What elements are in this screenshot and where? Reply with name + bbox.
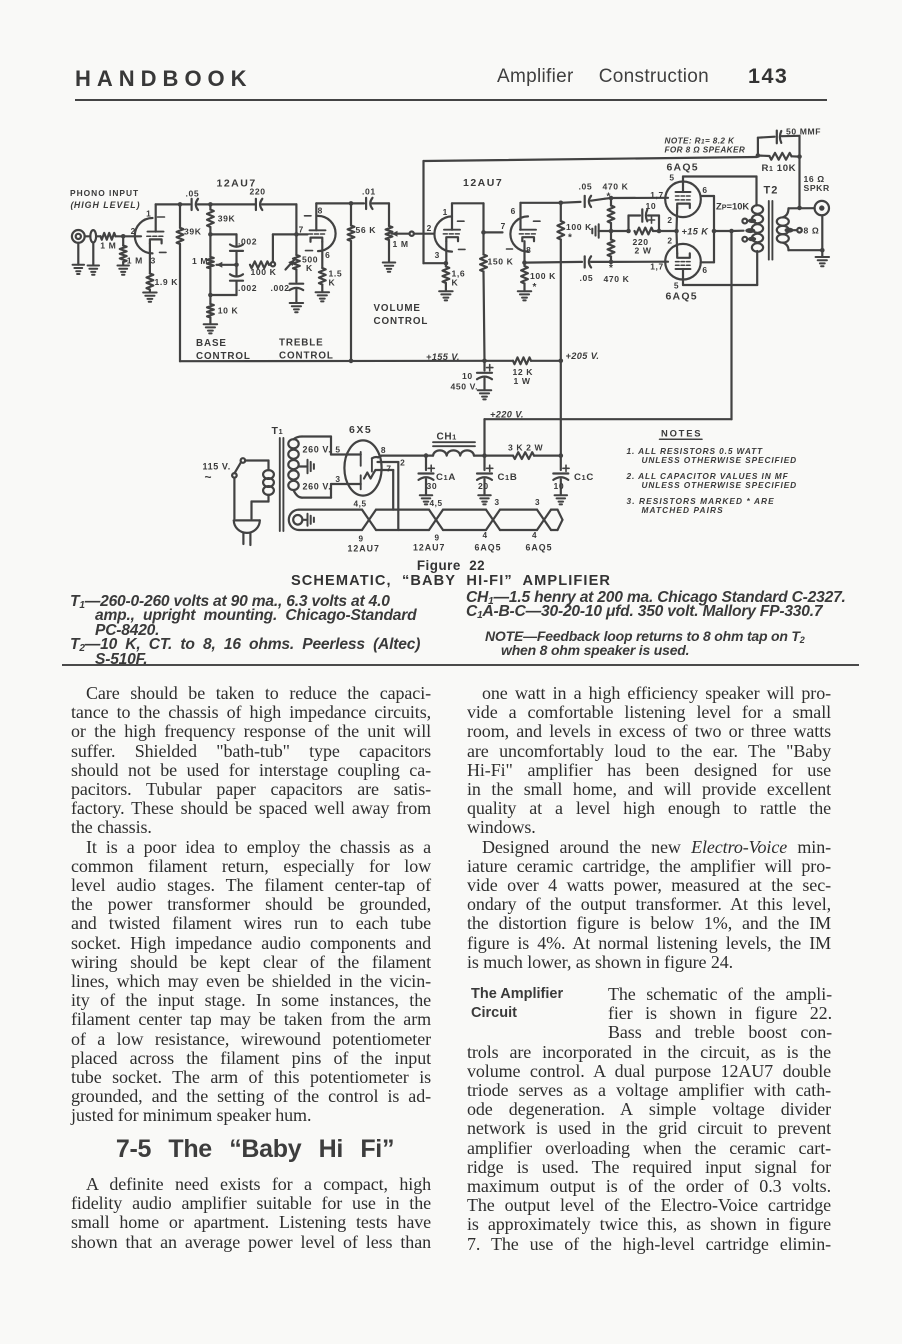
svg-text:.05: .05 [186,188,200,198]
svg-text:3: 3 [435,250,440,260]
wire V3 screen [701,196,714,262]
T1 primary bottom lead [252,495,269,519]
label .01 [362,187,376,197]
svg-text:6: 6 [702,185,707,195]
wire rail to 220 cap [198,203,256,205]
V1a grid dashes [147,235,163,237]
label 1.5K [329,269,343,288]
triode V1a envelope [135,217,166,253]
svg-text:470 K: 470 K [603,182,629,192]
section heading 7-5 [75,1135,435,1164]
wire V4 screen [701,261,714,263]
wire jack sleeve [821,215,823,250]
resistor 220 2W [635,228,654,235]
svg-text:.002: .002 [238,283,257,293]
label +155 V. [426,352,460,362]
label 1.6K [452,269,466,288]
node input grid junction [121,234,126,239]
svg-text:12AU7: 12AU7 [217,178,257,190]
node wiper/.002 [234,263,239,268]
label Zp=10K [716,201,749,212]
label 6AQ5 lower [666,291,698,303]
svg-text:5: 5 [674,281,679,291]
svg-text:(HIGH LEVEL): (HIGH LEVEL) [71,200,140,210]
wire V2a plate to splitter grid [452,203,503,232]
svg-text:1 M: 1 M [127,256,143,266]
svg-text:CONTROL: CONTROL [196,351,251,362]
label CH1 [437,432,457,443]
T2 primary coil [752,205,763,252]
V1b plate [310,203,326,230]
V4 pin label 5 [674,281,679,291]
T1 HV top lead [294,437,361,455]
heater winding center tap ground [302,514,314,526]
svg-text:10 K: 10 K [218,306,239,316]
T1 primary top lead [245,461,268,471]
capacitor 10MF bypass [629,209,660,231]
V4 grid dashes [676,261,691,263]
svg-text:ZP=10K: ZP=10K [716,201,749,212]
svg-text:1 M: 1 M [393,239,409,249]
rule under caption [62,664,859,667]
sideways ground mid [592,224,611,238]
svg-text:1 M: 1 M [192,256,208,266]
wire plate rail 2 [316,202,364,204]
resistor 1M series input [96,233,123,240]
svg-text:VOLUME: VOLUME [374,303,421,314]
V2a pin label 1 [443,207,448,217]
V3 pin label 5 [669,173,674,183]
potentiometer 500K [293,255,300,282]
label R1 10K [762,163,797,174]
svg-text:1 W: 1 W [514,376,531,386]
svg-text:6: 6 [325,250,330,260]
label TREBLE CONTROL [279,338,334,362]
label +205 V. [566,351,600,361]
svg-text:3: 3 [535,498,540,507]
svg-text:+15 K: +15 K [682,227,710,237]
wire bass node to cap .002a [210,234,236,245]
label 470K upper [603,182,629,203]
AC plug [234,520,260,545]
node V2a cathode [444,261,449,266]
heater bus [299,510,563,530]
svg-text:C1A: C1A [436,472,456,483]
label pin 7 [386,464,391,474]
label 1M bass [192,256,208,266]
svg-text:8: 8 [318,205,323,215]
label 6AQ5 heater 2 [526,543,553,553]
node 56K/155 rail [349,359,354,364]
label 220 2W [633,237,652,256]
V2a pin label 3 [435,250,440,260]
resistor 39K plate load [177,204,184,244]
rectifier 6X5 envelope [344,440,381,495]
svg-text:*: * [609,263,614,274]
label NOTE R1 [665,137,736,146]
ground under volume pot [383,263,396,272]
capacitor C1C [553,456,569,495]
V4 pin label 2 [667,236,672,246]
svg-text:10: 10 [646,201,657,211]
node feedback/R1 [756,153,761,158]
wire 56K to +155 rail [350,241,352,361]
T2 primary tap 3 [742,237,756,242]
svg-text:CONTROL: CONTROL [374,316,429,327]
T1 primary coil [263,470,274,495]
label 16 ohm SPKR [804,174,830,193]
label 100K cathode load [530,271,556,293]
V4 pin label 1,7 [650,262,663,272]
triode V1b envelope [305,216,336,251]
svg-text:20: 20 [478,481,489,491]
ground under C1C [555,495,568,504]
svg-text:9: 9 [359,535,364,544]
V1b pin label 7 [299,224,304,234]
label 1M (shunt) [127,256,143,266]
capacitor C1B [477,456,493,495]
node upper grid/470K [609,196,614,201]
svg-text:C1B: C1B [498,472,518,483]
wire +205 to C1C node [560,361,562,456]
svg-text:3: 3 [495,498,500,507]
figure caption title [0,558,902,573]
node 470K center [609,229,614,234]
node R1 right [797,154,802,159]
ground under C1B [478,495,491,504]
wire 100K load to +205 [560,240,562,361]
label 10K [218,306,239,316]
shield ferrule [90,230,96,242]
wire heater pin 7 [374,470,393,510]
resistor 1M shunt [120,236,127,265]
ground under 100K cathode [518,291,532,300]
svg-text:1.9 K: 1.9 K [155,277,179,287]
wire V4 plate to T2 [683,251,757,285]
label 6X5 [349,424,372,436]
svg-text:2: 2 [131,226,136,236]
label T1 [272,425,284,437]
label 260 V. upper [303,445,332,455]
svg-text:12AU7: 12AU7 [413,543,445,553]
node screens/CT [712,229,717,234]
node lower grid/470K [609,260,614,265]
capacitor C1A [419,456,435,495]
svg-text:1: 1 [443,207,448,217]
svg-text:.05: .05 [580,273,594,283]
resistor 1.5K [319,268,326,292]
wire to 6AQ5 grid upper [605,197,668,200]
label .002 lower [238,283,257,293]
T2 8-ohm tap [785,228,802,233]
V2b pin label 8 [526,245,531,255]
svg-text:7: 7 [299,224,304,234]
wire 220 right stub [653,230,677,232]
svg-text:R1 10K: R1 10K [762,163,797,174]
resistor 12K 1W [485,357,561,364]
svg-text:6: 6 [511,206,516,216]
ground under 1.5K [316,292,330,301]
node 150K/+155/12K/cap [482,359,487,364]
node C1B/+220 [482,453,487,458]
svg-text:100 K: 100 K [251,267,277,277]
V4 cathode [677,231,690,258]
label 450 V. [451,382,479,392]
T2 primary center tap [745,228,755,233]
node 220 left [626,229,631,234]
svg-text:9: 9 [435,534,440,543]
label 12AU7 first [217,178,257,190]
wire heater pin 2 [378,462,399,530]
svg-text:3: 3 [151,255,156,265]
capacitor .01 [366,198,372,209]
V1b pin label 6 [325,250,330,260]
wire 6X5 cathode to CH1 [382,455,434,457]
resistor 10K [207,295,214,324]
capacitor .05 interstage [192,199,198,210]
label +220 V. [490,410,524,420]
svg-text:~: ~ [205,470,213,484]
wire V3 plate to T2 [683,177,757,206]
6X5 plate 2 [360,475,362,489]
svg-text:39K: 39K [184,226,202,236]
label C1C [574,472,594,483]
pentode V4 envelope [665,244,701,280]
svg-text:6AQ5: 6AQ5 [666,291,698,303]
node V2a plate/150K [481,230,486,235]
T1 HV bottom lead [294,484,361,498]
choke CH1 [433,442,475,455]
label 115 V. [203,462,231,472]
V3 pin label 6 [702,185,707,195]
T1 core [280,438,284,531]
note 3 [627,496,775,515]
svg-text:4: 4 [532,531,537,540]
svg-text:7: 7 [501,221,506,231]
svg-text:MATCHED PAIRS: MATCHED PAIRS [642,505,724,515]
bass pot wiper arrow [217,262,237,268]
V2b pin label 6 [511,206,516,216]
wire to 6AQ5 grid lower [611,261,668,263]
resistor 1.6K [443,263,450,291]
label C1A [436,472,456,483]
wire CH1 to node [474,455,485,457]
label .05 upper [579,182,593,192]
wire .01 to volume pot [372,203,389,226]
T1 HV center tap ground [299,460,314,474]
label .05 (first) [186,188,200,198]
label 1.9K [155,277,179,287]
note 2 [626,471,798,490]
speaker jack [815,201,829,215]
wire wiper to V2a grid [414,233,435,235]
svg-text:56 K: 56 K [356,225,377,235]
svg-text:TREBLE: TREBLE [279,338,324,349]
V1b grid dashes [309,233,325,235]
svg-text:.05: .05 [579,182,593,192]
svg-text:.01: .01 [362,187,376,197]
node treble grid [294,232,307,237]
capacitor .002 upper [230,245,243,251]
capacitor .002 lower [230,265,243,295]
svg-text:8: 8 [381,445,386,455]
ground under 1.9K [143,293,157,302]
node V2b plate [559,201,564,206]
svg-text:4,5: 4,5 [430,499,443,508]
V1b cathode [311,238,323,268]
wire 39K to +155 rail [180,244,485,361]
label 56K [356,225,377,235]
label 30 [427,481,438,491]
running head chapter title [497,66,709,88]
label 1M (series) [100,241,116,251]
svg-text:12AU7: 12AU7 [463,177,503,189]
potentiometer 1M volume [386,226,393,262]
label 220 [250,187,266,197]
svg-text:5: 5 [669,173,674,183]
svg-text:K: K [452,278,459,288]
svg-text:6X5: 6X5 [349,424,372,436]
svg-text:1 M: 1 M [100,241,116,251]
svg-text:*: * [568,233,573,244]
capacitor .002 treble [290,284,304,303]
label +15 K [682,227,710,237]
node rail2/56K [349,201,354,206]
label 20 [478,481,489,491]
label .05 lower [580,273,594,283]
label PHONO INPUT [70,188,139,198]
label pin 9 second [435,534,440,543]
resistor 1.9K [147,274,154,293]
V3 cathode [677,204,690,231]
wire grid to V1a [123,235,141,237]
node rail/39K-a [178,202,183,207]
wire mid line a [611,230,629,232]
note 1 [627,446,798,465]
svg-text:4,5: 4,5 [354,500,367,509]
node V2b cathode [522,260,527,265]
svg-text:39K: 39K [218,214,236,224]
wire 220 cap to grid drop [262,203,296,205]
label 39K (bass feed) [218,214,236,224]
svg-text:FOR 8 Ω SPEAKER: FOR 8 Ω SPEAKER [665,146,746,155]
label pin 5 6X5 [335,445,340,455]
V2a plate [444,203,460,229]
svg-text:2: 2 [667,236,672,246]
power switch [232,458,245,518]
shield ground [88,243,100,275]
wire 39K to bass node [209,227,211,234]
label FOR 8 OHM SPEAKER [665,146,746,155]
svg-text:2: 2 [427,223,432,233]
6X5 heater [364,473,374,479]
jack sleeve ground [73,243,85,274]
wire feedback loop [424,157,758,263]
wire cap .002a to wiper line [235,251,237,265]
label 39K (plate load) [184,226,202,236]
triode V2b envelope [507,216,541,251]
sidehead The Amplifier Circuit [471,985,631,1023]
node cathodes [674,229,679,234]
label 10 C1C [554,481,565,491]
V3 pin label 2 [667,215,672,225]
V1a cathode [150,239,162,243]
svg-text:10: 10 [462,371,473,381]
V2b cathode [522,237,534,262]
label 12K 1W [513,367,534,386]
wire treble wiper to grid [273,233,297,235]
label T2 [764,185,779,197]
svg-text:CH1: CH1 [437,432,457,443]
T2 primary tap 1 [742,219,756,224]
potentiometer 1M bass [207,234,214,295]
V1a pin label 2 [131,226,136,236]
svg-text:PHONO INPUT: PHONO INPUT [70,188,139,198]
circuit schematic figure 22 [0,0,902,558]
label pin 3 6X5 [335,474,340,484]
svg-text:4: 4 [483,531,488,540]
resistor 39K bass feed [207,204,214,227]
body text right column [467,684,831,972]
phono input jack J1 [72,230,91,243]
V1b pin label 8 [318,205,323,215]
capacitor 220 [256,199,262,210]
svg-text:2: 2 [400,458,405,468]
T2 secondary coil [777,217,789,242]
wire cathode to .05 lower [525,261,583,264]
V2a grid dashes [443,233,459,235]
label 10 (bypass) [646,201,657,211]
V2a cathode [446,237,458,263]
T2 core [769,201,773,260]
label 260 V. lower [303,482,332,492]
node bass bottom [208,293,236,298]
svg-text:260 V.: 260 V. [303,445,332,455]
label VOLUME CONTROL [374,303,429,327]
capacitor 50MMF [758,131,800,157]
header rule [75,99,827,101]
label pin 3 second 6AQ5 [535,498,540,507]
resistor 470K lower [608,231,615,262]
triode V2a envelope [434,216,465,251]
label pins 4,5 first [354,500,367,509]
6X5 cathode [372,457,378,472]
svg-text:T1: T1 [272,425,284,437]
svg-text:K: K [329,278,336,288]
V2b plate [520,203,536,230]
svg-text:C1C: C1C [574,472,594,483]
T1 HV secondary coil [288,439,298,490]
node +205 [559,359,564,364]
ground under 450V cap [478,390,492,399]
svg-text:1,7: 1,7 [650,262,663,272]
node bass top [208,232,213,237]
svg-text:BASE: BASE [196,338,227,349]
node C1A [424,453,429,458]
node C1C [559,453,564,458]
svg-text:2: 2 [667,215,672,225]
svg-text:*: * [533,282,538,293]
svg-text:5: 5 [335,445,340,455]
svg-text:NOTE: R1= 8.2 K: NOTE: R1= 8.2 K [665,137,736,146]
svg-text:100 K: 100 K [566,222,592,232]
svg-text:260 V.: 260 V. [303,482,332,492]
ground under 1M shunt [117,266,129,275]
svg-text:K: K [306,263,313,273]
capacitor .05 lower [585,256,611,267]
label AC tilde [205,470,213,484]
label 500 K [302,255,318,274]
